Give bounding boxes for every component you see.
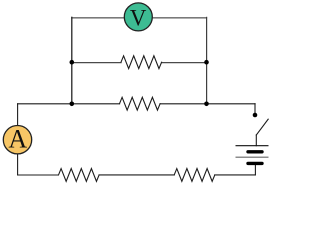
wire main right segment: [160, 103, 255, 105]
battery plate thick upper: [248, 150, 262, 153]
wire right bus: [206, 17, 208, 103]
junction node right main: [204, 102, 209, 107]
junction node right R1: [204, 60, 209, 65]
resistor R3: [59, 169, 100, 182]
wire switch drop: [254, 104, 256, 113]
wire bottom middle segment: [99, 174, 174, 176]
resistor R1: [121, 56, 162, 69]
wire left bus: [71, 17, 73, 103]
battery plate thick lower: [248, 162, 262, 165]
wire blade to battery: [255, 135, 257, 146]
svg-text:A: A: [8, 125, 27, 154]
junction node left main: [70, 102, 75, 107]
switch blade: [256, 119, 268, 135]
wire main left segment: [18, 103, 120, 105]
svg-text:V: V: [130, 5, 147, 30]
wire ammeter drop: [17, 104, 19, 175]
resistor R4: [174, 169, 215, 182]
battery plate long lower (grey): [236, 156, 269, 158]
resistor R2: [120, 97, 161, 110]
wire top branch (voltmeter branch): [72, 17, 207, 19]
junction node left R1: [70, 60, 75, 65]
voltmeter U1 circle: [124, 3, 152, 31]
wire branch R1 left lead: [72, 62, 121, 64]
battery plate long top: [236, 145, 269, 147]
ammeter U2 circle: [3, 126, 31, 154]
switch contact dot: [253, 113, 258, 118]
wire branch R1 right lead: [162, 62, 207, 64]
wire battery bottom riser: [254, 163, 256, 175]
wire bottom left lead: [18, 174, 59, 176]
wire bottom right segment: [215, 174, 256, 176]
